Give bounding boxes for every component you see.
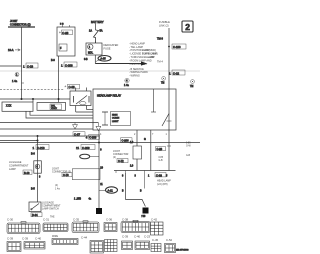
svg-text:11: 11 <box>100 184 103 186</box>
svg-text:C-208: C-208 <box>89 135 97 139</box>
svg-text:F: F <box>60 47 62 50</box>
svg-text:C-23: C-23 <box>27 64 34 68</box>
connector icon r2a <box>7 242 21 252</box>
lamp list text <box>129 42 157 77</box>
svg-text:B B: B B <box>60 24 64 26</box>
svg-text:C-22: C-22 <box>173 71 180 75</box>
wire to luggage branch <box>0 135 39 142</box>
svg-text:LAMP: LAMP <box>9 168 16 171</box>
svg-text:TM: TM <box>190 86 193 88</box>
nested wires from switch box <box>30 111 93 115</box>
svg-text:1: 1 <box>89 46 91 49</box>
svg-text:(2): (2) <box>113 156 116 159</box>
svg-text:C-31: C-31 <box>43 218 50 222</box>
connector label C-208 <box>61 62 77 68</box>
connector icon r2h <box>165 244 176 253</box>
labels row1 <box>7 217 158 222</box>
svg-text:MB-0704003: MB-0704003 <box>176 250 189 252</box>
arrow to lamp list <box>95 61 147 65</box>
bus wire y129 <box>0 128 93 130</box>
joint connector block small <box>133 146 142 159</box>
node circled TM right <box>161 77 166 85</box>
relay pin numbers <box>100 133 168 136</box>
wire to oval A <box>99 190 106 192</box>
node circled TM far right <box>190 80 194 88</box>
svg-text:TM-4: TM-4 <box>157 61 163 64</box>
junction block box right <box>37 103 66 111</box>
connector C-31 icon <box>43 223 68 232</box>
wire pin1 down <box>168 130 170 171</box>
svg-text:C-42: C-42 <box>151 218 158 222</box>
labels row2 <box>7 235 173 243</box>
wire from box B down <box>58 56 60 102</box>
label box C-70 <box>62 173 72 178</box>
svg-text:COMBI: COMBI <box>112 118 120 120</box>
svg-text:- IGNITION KEY: - IGNITION KEY <box>129 63 148 66</box>
svg-text:C-30: C-30 <box>7 218 14 222</box>
wires into tail lamp relay <box>75 88 77 92</box>
svg-text:1: 1 <box>61 64 63 68</box>
connector label C-209 <box>76 145 95 151</box>
fusible link box B <box>57 24 75 57</box>
svg-text:CONNECTOR (5): CONNECTOR (5) <box>52 170 71 173</box>
svg-text:7: 7 <box>152 133 154 136</box>
bus wire y142.5 full <box>0 142 200 144</box>
svg-text:f 30: f 30 <box>142 216 147 218</box>
relay coil <box>102 112 108 125</box>
svg-text:TM-3: TM-3 <box>157 38 163 41</box>
svg-text:C-70: C-70 <box>63 173 69 177</box>
svg-text:B: B <box>122 191 124 193</box>
svg-text:1 4a: 1 4a <box>124 84 129 87</box>
svg-text:L-04M: L-04M <box>147 56 154 59</box>
connector label C-08 <box>65 84 80 89</box>
triangle arrow left <box>73 123 78 130</box>
svg-text:B-6: B-6 <box>31 153 35 156</box>
label C-28 small <box>156 147 166 152</box>
svg-text:C-209: C-209 <box>82 146 90 150</box>
relay inner box <box>111 112 131 126</box>
svg-text:C-52: C-52 <box>166 238 173 242</box>
dashed wire left <box>0 89 64 91</box>
connector label C-206 <box>121 138 133 143</box>
short drop from bus <box>144 171 146 189</box>
connector label C-208b <box>86 135 100 140</box>
svg-text:B-13: B-13 <box>24 171 30 175</box>
label 10-A <box>8 48 20 52</box>
svg-text:1 4a: 1 4a <box>12 79 18 83</box>
svg-text:5: 5 <box>166 176 168 178</box>
svg-text:FUSIBLE: FUSIBLE <box>159 20 170 24</box>
headlamp bus bar <box>114 171 176 178</box>
connector icon r2g <box>151 244 161 252</box>
svg-text:B: B <box>140 191 142 193</box>
svg-text:C-28: C-28 <box>157 147 163 151</box>
svg-text:JOINT: JOINT <box>10 19 18 23</box>
headlamp relay box <box>93 89 176 130</box>
connector icon tall <box>90 241 104 254</box>
connector label C-37 <box>73 132 85 137</box>
svg-text:C-44: C-44 <box>81 236 88 240</box>
luggage compartment lamp switch <box>29 202 41 212</box>
svg-text:C-28: C-28 <box>62 31 69 35</box>
svg-text:LIGHT: LIGHT <box>112 121 119 123</box>
svg-text:6: 6 <box>36 165 38 169</box>
wire relay pin4 to ground <box>98 130 100 208</box>
switch text <box>42 202 61 211</box>
svg-text:C-36: C-36 <box>106 218 113 222</box>
svg-text:D-04: D-04 <box>32 213 38 217</box>
svg-text:1 .25B: 1 .25B <box>74 198 81 201</box>
junction block box left <box>2 102 33 111</box>
wire from bus into box <box>32 99 34 102</box>
connector label C-213 <box>33 145 50 151</box>
relay switch <box>151 89 172 126</box>
svg-text:LAMP SWITCH: LAMP SWITCH <box>42 208 59 211</box>
connector icon r2b <box>24 242 45 250</box>
bus wire y99 <box>0 98 70 100</box>
connector label C-23 <box>23 63 38 69</box>
label C-33 <box>155 173 166 178</box>
svg-text:0-B: 0-B <box>84 59 88 61</box>
svg-text:1: 1 <box>166 133 168 136</box>
connector C-35 icon <box>72 221 99 233</box>
node circled 1 <box>12 73 24 84</box>
node 4 text right <box>55 184 60 190</box>
ground square 2 <box>142 208 149 219</box>
ground square 1 <box>96 208 102 214</box>
divider line <box>0 70 200 72</box>
wire x169 inside relay <box>168 89 170 130</box>
connector C-100 <box>168 44 186 49</box>
bus wire y122.5 <box>0 122 98 124</box>
head lamp text <box>157 180 171 186</box>
joint connector text 2 <box>113 150 129 159</box>
svg-text:DEDICATED: DEDICATED <box>104 43 119 47</box>
svg-text:A-05: A-05 <box>100 57 106 60</box>
svg-text:BATTERY: BATTERY <box>91 20 104 24</box>
fusible link label top right <box>159 20 170 27</box>
dedicated fuse box <box>86 42 102 56</box>
svg-text:3: 3 <box>135 176 137 178</box>
tail lamp relay <box>70 91 91 106</box>
svg-text:CONNECTOR (2): CONNECTOR (2) <box>10 22 31 26</box>
wire continues <box>136 159 138 171</box>
wire: horizontal to C-23 <box>0 65 22 67</box>
connector icon flat <box>52 239 78 245</box>
oval connector mid <box>80 154 99 159</box>
bus wire y136 <box>0 135 99 137</box>
connector icon grid mid <box>105 240 118 252</box>
svg-text:1: 1 <box>169 72 171 76</box>
text block right middle <box>142 49 163 64</box>
small label box B-13 <box>23 170 32 175</box>
svg-text:3: 3 <box>39 176 41 179</box>
svg-text:G-B: G-B <box>159 160 164 162</box>
svg-text:10-A: 10-A <box>8 48 14 52</box>
svg-text:1A: 1A <box>89 30 92 33</box>
svg-text:4: 4 <box>126 79 128 83</box>
triangle inside relay <box>96 123 101 131</box>
svg-text:C-206: C-206 <box>122 139 130 143</box>
svg-text:G: G <box>144 139 146 141</box>
svg-text:C-39: C-39 <box>22 237 29 241</box>
svg-text:G-B: G-B <box>186 155 191 157</box>
svg-text:8: 8 <box>122 176 124 178</box>
svg-text:2: 2 <box>134 133 136 136</box>
svg-text:MDL: MDL <box>88 51 94 54</box>
svg-text:1: 1 <box>148 176 150 178</box>
svg-text:C-39: C-39 <box>122 235 129 239</box>
luggage branch vertical <box>37 136 39 202</box>
svg-text:C-38: C-38 <box>122 218 129 222</box>
svg-text:C-100: C-100 <box>173 45 181 49</box>
luggage lamp text <box>9 161 29 171</box>
battery <box>89 20 104 33</box>
svg-text:C-40: C-40 <box>134 235 141 239</box>
wire pin7 down <box>150 130 152 171</box>
svg-text:1: 1 <box>16 73 18 77</box>
svg-text:1.0: 1.0 <box>130 166 134 168</box>
svg-text:4: 4 <box>100 133 102 136</box>
svg-text:HEADLAMP RELAY: HEADLAMP RELAY <box>97 94 121 98</box>
svg-text:X XX: X XX <box>6 106 12 108</box>
svg-text:9: 9 <box>100 150 102 152</box>
connector grid dense <box>151 222 164 235</box>
svg-text:C-23: C-23 <box>144 235 151 239</box>
svg-text:THE: THE <box>50 217 55 219</box>
wire: right vertical from fusible link <box>168 28 170 89</box>
label box C-72 <box>117 159 128 164</box>
svg-text:C-213: C-213 <box>37 146 45 150</box>
svg-text:C-08: C-08 <box>69 85 76 89</box>
svg-text:C-45: C-45 <box>152 238 159 242</box>
svg-text:C-35: C-35 <box>73 218 80 222</box>
svg-text:HIGH: HIGH <box>112 115 118 117</box>
svg-text:(LO) (RH): (LO) (RH) <box>157 183 168 186</box>
svg-text:2: 2 <box>185 22 190 32</box>
connector oval A-05 <box>96 56 111 62</box>
node A: joint connector label top-left <box>8 19 35 27</box>
wire below fuse box <box>94 55 96 64</box>
svg-text:WIRE: WIRE <box>52 236 58 238</box>
label dedicated fuse <box>104 43 119 50</box>
svg-text:G-W: G-W <box>186 146 192 148</box>
connector C-36 icon <box>104 223 117 232</box>
svg-text:A-11: A-11 <box>108 188 114 192</box>
page box 2 <box>182 21 193 32</box>
svg-text:TM: TM <box>161 83 164 85</box>
oval connector A-11 <box>106 187 118 193</box>
svg-text:11: 11 <box>76 146 79 150</box>
svg-text:B-5: B-5 <box>31 188 35 191</box>
svg-text:10: 10 <box>100 168 103 170</box>
svg-text:1: 1 <box>23 65 25 69</box>
wire L path to ground <box>122 173 145 207</box>
svg-text:XXXX: XXXX <box>51 108 57 110</box>
svg-text:- WIRING: - WIRING <box>129 75 140 78</box>
svg-text:1: 1 <box>33 146 35 150</box>
svg-text:LINK (2): LINK (2) <box>159 23 169 27</box>
svg-text:0.85: 0.85 <box>186 143 191 145</box>
svg-text:FUSE: FUSE <box>104 46 111 50</box>
connector label C-22 <box>169 70 185 76</box>
right edge labels <box>186 143 192 158</box>
svg-text:C-39: C-39 <box>7 237 14 241</box>
connector icon r2f <box>135 241 150 250</box>
svg-text:4a: 4a <box>89 199 92 201</box>
wire pin2 down <box>136 130 138 146</box>
svg-text:5A: 5A <box>100 30 103 33</box>
luggage compartment lamp <box>34 161 42 173</box>
joint connector text <box>52 168 71 174</box>
svg-text:C-208: C-208 <box>65 63 73 67</box>
connector C-30 icon <box>7 222 40 234</box>
node circled 4 on divider <box>124 78 129 87</box>
svg-text:C-33: C-33 <box>156 173 162 177</box>
svg-text:1 4a: 1 4a <box>55 187 60 190</box>
tail relay pins down <box>75 106 77 113</box>
fusible link slant <box>94 30 99 43</box>
wires to headlamp relay <box>76 111 93 113</box>
connector icon r2e <box>122 241 133 250</box>
connector C-38 icon <box>121 220 150 232</box>
svg-text:C-40: C-40 <box>35 237 42 241</box>
svg-text:B-8: B-8 <box>51 59 55 62</box>
label below switch <box>31 213 42 218</box>
wire: left vertical <box>21 27 23 99</box>
svg-text:0.85: 0.85 <box>159 157 164 159</box>
svg-text:C-72: C-72 <box>118 159 124 163</box>
joint connector box mid <box>72 169 100 180</box>
